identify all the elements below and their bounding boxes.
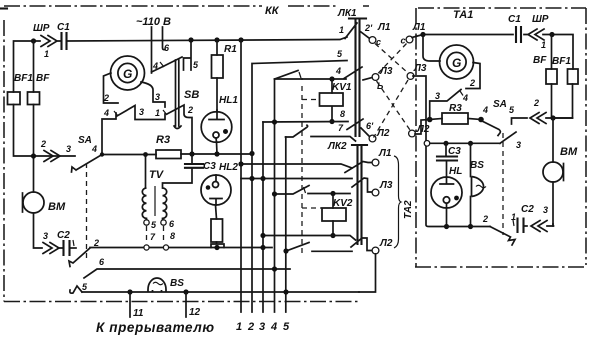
plug LK2 jack [352,145,367,244]
svg-text:ВМ: ВМ [48,201,66,213]
svg-text:С1: С1 [508,14,521,25]
terminal c TA1 circle [406,36,413,43]
wire terminal 11 stub [129,292,131,317]
resistor R3 [156,150,181,159]
switch R3 bypass blade [430,90,463,120]
svg-text:2: 2 [247,321,254,333]
svg-text:BS: BS [170,278,184,289]
terminal L1 LK2 circle [372,159,379,166]
microphone VM left [23,192,45,213]
svg-text:1: 1 [236,321,242,333]
node SA pivot [100,152,104,156]
fuse BF TA1 [546,35,557,119]
terminal L3 TA1 circle [407,73,414,80]
svg-text:4: 4 [270,321,277,333]
node BS TA2 junction [468,141,473,146]
link KV1 dashed [302,99,318,101]
border KK block top [0,7,7,9]
node BF/mic wire junction [31,153,36,158]
svg-text:BS: BS [470,160,484,171]
wire TA2 bottom rail [446,226,490,228]
relay KV1 [320,79,344,122]
svg-text:4: 4 [152,61,158,71]
transformer TV secondary [163,168,193,218]
svg-text:7: 7 [338,123,344,133]
wire VM to C2 [34,213,64,248]
node bus2 L3 junction [249,176,254,181]
svg-text:3: 3 [66,144,71,154]
switch SA TA1 blade [483,122,500,136]
wire G TA1 right lead [466,63,480,89]
connector ShR pin2 chevrons [44,151,60,162]
node C3 TA2 junction [443,141,448,146]
wire L2 return drop [359,254,376,292]
transformer TV primary [142,155,146,219]
lamp HL2 [201,175,231,205]
terminal L3 KK circle [372,74,379,81]
svg-text:R1: R1 [224,44,237,55]
connector ShR pin1 chevrons [41,36,57,47]
svg-text:6: 6 [99,257,105,267]
svg-text:С3: С3 [203,161,216,172]
link SA mechanical dashed [86,163,88,261]
resistor R1 [212,55,224,78]
wire contact4 to KV1 to plug [302,67,362,79]
svg-text:Л1: Л1 [378,148,392,159]
bus line 1 [240,40,242,312]
svg-text:G: G [452,56,461,70]
svg-text:6: 6 [169,219,175,229]
svg-text:HL1: HL1 [219,95,238,106]
switch LK2 blade L2 [351,238,371,251]
node main rail at SB [188,37,193,42]
node TA1 L1 junction [420,32,425,37]
node TV primary junction [143,152,148,157]
node bus2 R3 rail junction [249,151,254,156]
wire L3 rail across buses [241,178,352,180]
terminal 8 circle [163,245,168,250]
svg-text:К прерывателю: К прерывателю [96,320,214,335]
svg-text:G: G [123,67,132,81]
border KK block bottom [4,301,358,303]
node terminal12 junction [183,289,188,294]
switch G blade 4-3 [114,106,167,120]
wire hook contact 2 rail [90,247,272,249]
wire C2 stub [70,247,77,249]
bus line 3 from jog [262,122,264,312]
svg-text:2: 2 [533,98,539,108]
node bus3 L3 junction [260,176,265,181]
node ballast junction [214,245,219,250]
svg-text:HL: HL [449,166,462,177]
svg-text:ТА1: ТА1 [453,9,473,21]
border KK block left [3,20,5,302]
svg-text:BF: BF [36,73,50,84]
node bus4 KV2rail junction [272,191,277,196]
capacitor C1 left [62,33,67,49]
fuse BF1 TA1 [553,69,578,118]
svg-text:2: 2 [40,139,46,149]
connector pin2 TA1 chevrons [530,113,546,124]
wire L2 TA1 link [415,120,430,135]
lamp HL TA2 [431,177,462,227]
switch hook contact 5 [70,286,82,293]
svg-text:ЛК1: ЛК1 [337,8,357,19]
capacitor C1 TA1 [516,27,521,42]
wire terminal 12 stub [185,292,187,317]
switch LK2 blade L3 [352,178,371,192]
svg-text:4: 4 [91,144,97,154]
terminal L2 LK2 circle [372,247,379,254]
svg-text:HL2: HL2 [219,162,238,173]
capacitor C2 left [64,241,70,255]
wire L3 TA1 down feed [413,76,445,227]
svg-text:2': 2' [364,23,373,33]
node HL1 lead junction [214,151,219,156]
bell BS left dome [148,278,166,292]
terminal L3 LK2 circle [372,189,379,196]
node bus3 hook2 junction [260,245,265,250]
brace TA2 group [394,156,401,248]
wire main top rail [33,37,347,41]
link SA TA2 dashed [502,133,504,235]
svg-text:Л3: Л3 [379,180,393,191]
border TA1 top [418,7,586,9]
svg-text:5: 5 [283,321,290,333]
switch cord contact lower blade [286,125,308,137]
svg-text:3: 3 [435,91,440,101]
wire KV2 contact rail [275,186,351,195]
connector pin3 TA2 chevrons [531,221,547,232]
bus line 4 with corner contact wire [274,80,276,313]
wire 6prime stub [361,128,369,136]
wire crossover dashed 4 [374,80,409,138]
node bus4 rail8 junction [272,119,277,124]
node R3 left TA1 [427,117,433,123]
microphone VM TA1 [543,118,564,226]
link KV2 dashed [302,207,322,209]
svg-text:5: 5 [193,60,199,70]
switch SB blade to 2 [167,105,192,153]
terminal c KK circle [369,37,376,44]
wire ballast to rail 2 bracket [211,242,224,248]
svg-text:1: 1 [339,25,344,35]
svg-text:4: 4 [335,66,341,76]
svg-text:TV: TV [149,169,165,181]
svg-text:Л3: Л3 [379,66,393,77]
node KV1 bottom [329,119,334,124]
wire hook contact 6 rail with open blade [84,269,290,278]
svg-text:Л1: Л1 [377,22,391,33]
node VM TA1 junction [550,115,555,120]
svg-text:С1: С1 [57,22,70,33]
wire bus5 stub blade [286,243,352,252]
node KV2 bottom junction [330,233,335,238]
wire R1 to HL1 [216,78,218,112]
wire BF leg down to VM [33,105,35,193]
terminal TA2 mid circle [424,141,430,147]
switch LK2 blade L1 [345,162,372,173]
svg-text:Л1: Л1 [412,22,426,33]
node main/BF junction [31,38,36,43]
node main rail at R1 [214,37,219,42]
svg-text:ЛК2: ЛК2 [327,141,347,152]
wire KV2 bottom rail [263,236,356,241]
wire crossover dashed 3 [377,81,411,130]
svg-text:8: 8 [340,109,345,119]
wire 110V pole A [151,27,153,73]
connector ShR TA1 pin1 chevrons [528,29,544,40]
node bus5 stub junction [283,248,288,253]
svg-text:Л2: Л2 [379,238,393,249]
wire chevron to VM TA2 [547,224,554,226]
svg-text:2: 2 [187,105,193,115]
svg-text:7: 7 [150,232,156,242]
terminal L2 TA1 circle [409,130,416,137]
svg-text:3: 3 [155,92,160,102]
svg-text:1: 1 [541,40,546,50]
svg-text:ТА2: ТА2 [403,200,414,219]
svg-text:2: 2 [469,78,475,88]
terminal 6 TV circle [161,218,166,225]
svg-text:5: 5 [151,220,157,230]
switch hook TA2 blade [490,227,515,246]
svg-text:SA: SA [78,135,92,146]
svg-text:С2: С2 [521,204,534,215]
fuse BF left [28,92,40,105]
node main rail at bus1 [238,37,243,42]
contact 2prime to c terminal [361,32,369,38]
bus line 2 with corner to LK1 [252,61,347,313]
plug LK1 jack [349,19,366,137]
svg-text:4: 4 [482,105,488,115]
svg-text:4: 4 [103,108,109,118]
svg-text:2: 2 [103,93,109,103]
svg-text:BF1: BF1 [552,56,571,67]
generator G left [111,56,145,90]
wire bell rail [82,291,359,293]
svg-text:5: 5 [82,282,88,292]
switch hook contact 2 blade [69,248,90,267]
fuse BF1 left [8,92,21,105]
bus line 5 [285,137,287,312]
wire G left lead [104,73,119,103]
wire 110V pole B with hook 6 [163,27,166,50]
svg-text:1: 1 [44,49,49,59]
svg-text:4: 4 [462,93,468,103]
svg-text:ШР: ШР [33,23,50,34]
capacitor C3 TA2 [437,143,457,177]
connector pin3 chevrons [43,243,59,254]
svg-text:5: 5 [509,105,515,115]
wire SA pivot riser [102,113,116,155]
svg-text:3: 3 [43,231,48,241]
switch SB blade 4-5 [152,57,183,72]
node KV1 top [329,76,334,81]
svg-text:1: 1 [155,108,160,118]
link cord switch dashed actuator [301,86,303,253]
svg-text:12: 12 [189,307,201,318]
node terminal11 junction [127,289,132,294]
svg-text:3: 3 [259,321,265,333]
wire left drop to BF1 [14,41,34,92]
generator G TA1 [440,45,474,79]
wire TA1 G left lead [423,35,440,62]
node bus1 L1 junction [238,161,243,166]
svg-text:Л3: Л3 [413,63,427,74]
switch cord contact upper blade [275,71,303,80]
border TA1 TA2 left [415,8,417,267]
svg-text:С2: С2 [57,230,70,241]
wire contact5 rail TA1 [512,118,573,124]
label 1 contact tick [73,240,74,246]
svg-text:5: 5 [337,49,343,59]
svg-text:ВМ: ВМ [560,146,578,158]
node SB2 drop junction [189,151,194,156]
border TA2 bottom [415,266,586,268]
node R3 right TA1 [478,117,484,123]
wire TA1 top rail [412,35,573,70]
node fuse BF top junction [549,32,554,37]
node HL bottom junction [444,224,449,229]
wire R1 top lead [216,40,218,55]
lamp HL1 [201,110,232,142]
node bus5 bell junction [283,289,288,294]
wire R3 rail [102,153,252,156]
resistor HL2 ballast [211,219,223,242]
wire contact8 rail [263,121,348,124]
resistor R3 TA1 [430,113,481,124]
wire L3KK stub to plug [363,78,372,81]
wire HL1 bottom lead [216,142,219,154]
svg-text:с: с [401,36,406,46]
contact 5 bracket from main rail [184,40,192,70]
wire TA2 top rail [430,142,500,144]
terminal L2 KK upper circle [369,135,376,142]
wire crossover dashed 2 [378,44,407,74]
node BS bottom junction [468,224,473,229]
node bus3 kv2rail junction [260,233,265,238]
wire dashed terminal 5 to 7 [146,226,148,244]
border TA1 TA2 right [585,8,587,265]
switch SA blade open [72,155,103,173]
wire BF drop [33,41,35,92]
wire contact1 LK2 [311,137,356,142]
svg-text:С3: С3 [448,146,461,157]
bell BS TA2 [471,143,487,226]
svg-text:3: 3 [516,140,521,150]
svg-text:~110 В: ~110 В [136,16,171,28]
svg-text:2: 2 [482,214,488,224]
svg-text:8: 8 [170,231,175,241]
switch blade 7 onto plug [347,119,363,130]
capacitor C3 left plates [185,154,203,168]
svg-text:КК: КК [265,5,280,17]
svg-text:2: 2 [93,238,99,248]
svg-text:SB: SB [184,89,199,101]
svg-text:BF: BF [533,55,547,66]
svg-text:R3: R3 [156,134,170,146]
relay KV2 [322,194,346,236]
capacitor C2 TA2 [513,219,527,233]
wire BF1 leg down to hook wire [14,105,76,157]
svg-text:SA: SA [493,99,507,110]
svg-text:3: 3 [139,107,144,117]
wire dashed terminal 6 to 8 [163,226,165,244]
terminal 7 circle [144,245,149,250]
svg-text:KV1: KV1 [332,82,352,93]
wire HL2 to resistor [216,205,217,219]
wire crossover dashed 1 [375,44,408,74]
svg-text:BF1: BF1 [14,73,33,84]
terminal 5 TV circle [144,218,149,225]
node KV2 top junction [330,191,335,196]
svg-text:11: 11 [133,308,144,319]
svg-text:3: 3 [543,205,548,215]
pushbutton SB actuator [174,60,181,129]
node bus4 hook6 junction [272,266,277,271]
switch LK1 line blade 1 [345,23,357,39]
switch SA contact3 blade TA2 [500,132,516,143]
svg-text:6': 6' [366,121,374,131]
svg-text:6: 6 [164,43,170,53]
wire G right lead bracket 3 [141,82,165,107]
svg-text:ШР: ШР [532,14,549,25]
transformer TV core [154,186,156,216]
wire L1 rail from bus1 [241,164,352,168]
